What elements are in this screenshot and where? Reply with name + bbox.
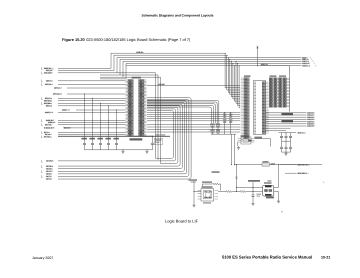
connector P2002 top label [244,75,251,77]
net label LIF_PTT [46,170,54,173]
wire LIF bus net 3 [147,107,178,163]
IC U2007 LIF switch [198,186,219,203]
wire cap row rail [85,149,153,150]
connector P2002 bottom label [243,140,252,142]
resistor R2022 [226,191,232,193]
wire LCD data 6 [266,125,316,128]
wire P2002 feed [229,59,240,95]
net label LIF_SCL [46,167,53,170]
wire BATT rail [234,164,322,166]
connector J2003 col1 [279,78,282,107]
wire lower mid net [147,129,240,131]
connector J2002 col2 [274,78,281,107]
resistor R2023 [240,191,246,193]
ground U2006 [237,146,240,149]
ground cap row right [145,150,148,153]
svg-text:R_9600_BPS: R_9600_BPS [44,127,55,130]
svg-text:Schematic Diagrams and Compone: Schematic Diagrams and Component Layouts [142,13,214,17]
wire net UART_TX [62,109,126,112]
svg-text:LIF_PWR: LIF_PWR [46,160,54,163]
wire mid net [147,114,240,116]
wire net KEY_INT [45,123,126,126]
capacitor right row2 [285,144,288,153]
wire LIF bus net 9 [58,98,191,179]
wire VCC big L [260,66,290,112]
wire cluster B interlink [217,126,219,134]
wire net unnamed [100,74,158,76]
wire Q2001 base [253,191,263,192]
wire LCD data 5 [266,123,316,126]
svg-text:LCD_CLK: LCD_CLK [302,64,311,67]
capacitor C2011 [81,138,87,150]
svg-text:UART_RX: UART_RX [45,111,54,114]
wire drop B [157,75,159,160]
wire top wrap 4 [120,59,302,75]
wire P2002 feed [239,65,241,108]
connector J2002 col1 [269,78,272,107]
resistor R2010 zero ohm [262,161,275,166]
net label LIF_TX [46,175,53,178]
wire LCD data 0 [266,112,316,115]
crystal/filter Y2 [216,124,220,128]
wire LCD data 1 [266,114,316,117]
net label R_A [212,171,220,173]
net label VCC_5V [261,63,269,66]
wire U2006 gnd stub [236,142,239,146]
capacitor right row1 [289,133,292,142]
wire cluster B feed [147,105,214,123]
wire top wrap 6 [126,64,302,80]
net label LCD_BL [136,51,144,54]
connector J2003 top label [279,75,286,77]
connector edge ticks [42,67,43,178]
ground C2021 [251,202,254,205]
wire net OPT_CS [46,80,126,83]
wire net SPI_CS [46,105,126,108]
footer right [222,255,330,260]
net label LIF_CS [46,178,53,181]
wire cluster A gnd 2 [230,124,232,135]
svg-text:VOL_WIPE: VOL_WIPE [44,72,54,75]
wire cap cluster mid [282,140,291,142]
wire LIF bus net 1 [147,111,174,159]
wire net unnamed [100,78,126,80]
capacitor right row2 [280,144,283,153]
wire P2002 feed [234,65,240,101]
capacitor cluster A C2 [223,119,227,124]
wire box to caps 1 [266,127,291,129]
wire Q2001 emitter to gnd [274,192,279,200]
connector P2002 [241,78,249,142]
wire cluster A gnd 1 [224,124,226,135]
svg-text:023-5500-180/182/185 Logic Boa: 023-5500-180/182/185 Logic Board Schemat… [86,37,191,42]
wire bypass feed [92,98,93,141]
net label BATT_B+ [297,163,310,166]
wire LCD data 4 [266,120,316,123]
wire cluster B feed [147,100,219,123]
wire cluster B feed [147,102,217,124]
wire U2006 out [255,139,271,147]
wire LIF bus net 8 [58,99,189,176]
svg-text:Logic Board to LIF: Logic Board to LIF [165,219,199,224]
svg-text:VCC_LCD: VCC_LCD [298,131,307,134]
svg-text:BATT_B+_SW \: BATT_B+_SW \ [298,163,311,166]
wire drop C [160,77,162,163]
capacitor C2021 [252,193,262,202]
wire GND_SEL drop [194,181,195,203]
wire LIF bus net 6 [58,103,185,172]
crystal/filter Y3 [211,129,215,133]
wire LIF bus net 4 [58,106,180,166]
capacitor right row1 [285,133,288,142]
svg-text:January 2007: January 2007 [32,256,53,260]
figure caption [62,37,191,42]
capacitor cluster A C3 [229,119,233,124]
wire net DISP_RST [46,119,126,122]
wire top wrap 1 [111,53,226,68]
net labels right top [302,56,316,67]
wire Q2001 collector [274,164,279,187]
wire bypass feed [84,94,85,141]
IC U2006 [238,135,255,144]
wire net DISP_CS [48,121,126,124]
capacitor C2016 LIF [151,136,163,150]
capacitor cluster A C1 [229,114,233,119]
net label VCC_SEL [248,180,260,182]
wire cap cluster bot [282,141,291,152]
wire VCC_SEL drop [252,182,254,193]
wire cluster B interlink [212,126,214,134]
wire cluster B feed [147,104,216,124]
wire top wrap 5 [123,61,302,77]
wire LCD data 3 [266,118,316,121]
tick mark bottom right [323,182,324,184]
junction speck [282,211,283,212]
wire rail y136 [58,136,170,137]
wire into U2007 [194,191,201,193]
wire bypass feed [100,103,101,141]
wire net BT_CLK [45,133,126,136]
IC U2001 [254,81,269,139]
wire mid net [147,118,240,120]
svg-text:BT_DATA: BT_DATA [44,135,52,138]
power symbol 5V top [256,46,258,50]
net label LIF_RX [46,173,53,176]
svg-text:LIF_DET: LIF_DET [159,83,167,86]
wire net VOL_WIPE [44,72,156,75]
crystal/filter Y4 [216,129,220,133]
wire net BT_DATA [44,135,170,138]
wire net OPT_CLK [54,87,126,90]
wire U2007 to R2022 [218,191,226,193]
svg-text:OPT_CLK: OPT_CLK [54,87,63,90]
wire mid net [147,120,240,122]
wire connector bottom to rail [133,135,152,137]
svg-text:UART_TX: UART_TX [62,109,71,112]
wire LIF bus net 5 [58,104,182,169]
wire net OPT_RDY [45,83,126,86]
svg-text:OPT_DATA: OPT_DATA [53,93,63,96]
svg-text:LIF_PTT: LIF_PTT [46,170,54,173]
net label DATA bus B [282,120,294,122]
connector J2001 P2001 [126,80,147,137]
transistor Q2001 [263,180,275,198]
svg-text:SPI_CS: SPI_CS [46,105,53,108]
connector J2001 top label [132,77,142,79]
net label BT_XFR [64,127,71,130]
svg-text:LIF_SDA: LIF_SDA [46,165,54,168]
svg-text:SPI_MOSI: SPI_MOSI [44,99,53,102]
svg-text:LIF_RX: LIF_RX [46,173,53,176]
wire lower mid net [147,124,240,126]
wire P2002 feed [237,63,240,106]
wire lower mid net [147,131,240,133]
svg-text:Figure 10.20: Figure 10.20 [62,37,85,42]
wire P2002 feed [227,55,241,90]
svg-text:LCD_D6 \: LCD_D6 \ [307,125,315,128]
net label GND_SEL [189,179,198,182]
svg-text:LIF_SCL: LIF_SCL [46,167,53,170]
svg-text:LCD_BL: LCD_BL [137,51,145,54]
capacitor right row1 [280,133,283,142]
net label LIF_PWR [46,160,54,163]
net label rail LIF [156,134,166,135]
wire LIF bus net 2 [58,109,176,161]
ground GND_SEL [192,204,195,207]
wire Q2001 in upper [236,187,263,188]
wire P2002 feed [225,53,240,88]
svg-text:OPT_RDY: OPT_RDY [45,83,54,86]
ground Q2001 [277,200,280,203]
wire bypass feed [116,110,117,141]
svg-text:LIF_TX: LIF_TX [46,175,52,178]
wire box to caps 2 [266,129,286,131]
capacitor C2012 [89,138,95,150]
wire bypass feed [108,105,109,141]
wire net SPI_MISO [44,102,126,105]
wire LIF bus net 7 [58,101,187,174]
wire net SPI_CLK [45,97,126,100]
svg-text:KEY_INT: KEY_INT [45,123,53,126]
wire net R_9600_BPS [44,127,126,130]
wire top wrap 2 [114,55,228,70]
wire R2023 to Q2001 [246,191,259,192]
wire LCD data 2 [266,116,316,119]
capacitor C2015 [113,138,119,150]
power symbol mid [235,176,237,180]
wire net unnamed [100,76,161,78]
wire cap cluster rail [279,131,307,134]
wire lower mid net [147,126,240,128]
wire P2002 feed [228,57,240,92]
wire R2022 to R2023 [232,191,241,192]
connector J2001 bottom label [130,138,143,140]
wire mid net [147,111,240,113]
net label DATA bus A [282,113,294,115]
wire cluster B bottom [211,134,236,165]
svg-text:10-21: 10-21 [321,256,330,260]
svg-text:LIF_CS: LIF_CS [46,178,53,181]
wire cluster B feed [147,107,212,124]
wire P2002 feed [232,63,240,99]
svg-text:BT_XFR: BT_XFR [64,127,71,130]
wire net SPI_MOSI [44,99,126,102]
wire net EXT_PTT [46,69,114,72]
wire mid power drop [236,164,237,191]
capacitor C2013 [97,138,103,150]
wire drop A [155,73,157,159]
wire net AUX [147,83,240,86]
wire VCC 5V rail [126,65,302,66]
wire net PWR_SW_2 [44,67,111,70]
capacitor cluster A C0 [223,114,227,119]
ground right cluster [284,152,287,155]
wire mid net [147,116,240,118]
crystal/filter Y1 [211,124,215,128]
connector J2003 col2 [283,78,290,107]
connector J2002 top label [270,75,277,77]
capacitor C2014 [105,138,111,150]
resistor R2021 [202,181,221,190]
ground cap row left [121,150,124,153]
wire cluster A drops [224,112,231,115]
wire net OPT_DATA [53,93,126,96]
capacitor right row2 [289,144,292,153]
wire net UART_RX [45,111,126,114]
svg-text:OPT_CS: OPT_CS [46,80,54,83]
wire P2002 feed [231,61,240,97]
svg-text:SPK_SEL_B \: SPK_SEL_B \ [298,172,309,175]
wire net BT_EN [44,131,126,134]
svg-text:5100 ES Series Portable Radio: 5100 ES Series Portable Radio Service Ma… [222,255,312,260]
wire P2002 feed [236,61,241,104]
wire power drop [257,50,259,66]
wire SPK line [285,172,309,175]
wire top wrap 3 [117,58,302,73]
net label LIF_SDA [46,165,54,168]
